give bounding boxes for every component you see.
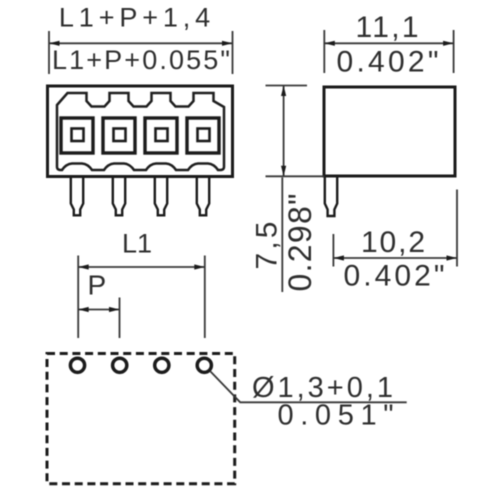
dimension 10,2: extension line right [456, 190, 458, 267]
front view: contact pin square 4 [198, 129, 210, 142]
dimension P: extension line right [119, 298, 121, 339]
front view: connector body outline [48, 86, 233, 177]
svg-text:L1: L1 [122, 228, 152, 258]
front view: contact pin square 3 [156, 129, 168, 142]
front view: contact pin square 1 [72, 129, 84, 142]
svg-text:L1+P+0.055": L1+P+0.055" [52, 45, 230, 75]
leader line from hole 4 to diameter note [211, 372, 407, 403]
bottom view: drill hole 4 [197, 358, 211, 372]
bottom view: drill hole 2 [113, 358, 127, 372]
dimension 11,1: dimension line [324, 42, 453, 44]
dimension 7,5: arrowhead bottom [281, 166, 286, 177]
svg-text:11,1: 11,1 [356, 11, 419, 44]
bottom view: drill hole 1 [70, 358, 84, 372]
dimension L1: arrowhead left [78, 264, 89, 269]
front view: contact window 3 [145, 118, 177, 153]
dimension L1: arrowhead right [194, 264, 205, 269]
dimension 10,2: extension line left [332, 234, 334, 267]
svg-text:0.298": 0.298" [282, 194, 318, 292]
dimension L1+P+1,4: extension line left [48, 31, 50, 74]
dimension 7,5: dimension line [283, 86, 285, 177]
dimension L1+P+1,4: arrowhead right [222, 41, 233, 46]
dimension 7,5: arrowhead top [281, 86, 286, 97]
svg-text:0.402": 0.402" [344, 259, 445, 292]
dimension 7,5: extension line bottom [266, 175, 325, 177]
svg-text:7,5: 7,5 [251, 222, 284, 270]
dimension L1+P+1,4: arrowhead left [49, 41, 60, 46]
front view: contact window 2 [103, 118, 135, 153]
svg-text:P: P [88, 269, 107, 300]
dimension 10,2: arrowhead right [447, 255, 458, 260]
dimension 11,1: extension line right [453, 30, 455, 73]
front view: inner moulding contour [57, 93, 224, 170]
dimension L1+P+1,4: dimension line [49, 42, 233, 44]
dimension L1: extension line left [77, 256, 79, 339]
dimension 10,2: arrowhead left [333, 255, 344, 260]
dimension 10,2: dimension line [333, 257, 457, 259]
dimension 11,1: arrowhead right [443, 41, 454, 46]
dimension L1: dimension line [78, 266, 205, 268]
front view: solder pin 4 [197, 178, 209, 216]
side view: body outline [324, 87, 455, 176]
front view: contact window 4 [187, 118, 219, 153]
front view: contact window 1 [61, 118, 93, 153]
svg-text:10,2: 10,2 [361, 226, 425, 259]
dimension P: arrowhead left [78, 307, 89, 312]
dimension 7,5: extension line top [266, 85, 308, 87]
dimension 11,1: extension line left [323, 30, 325, 73]
dimension L1: extension line right [204, 256, 206, 339]
front view: solder pin 1 [71, 178, 83, 216]
side view: solder pin [325, 178, 337, 217]
dimension P: dimension line [78, 309, 119, 311]
svg-text:0.051": 0.051" [278, 400, 394, 432]
svg-text:L1+P+1,4: L1+P+1,4 [59, 2, 210, 32]
bottom view: drill hole 3 [155, 358, 169, 372]
svg-text:0.402": 0.402" [337, 45, 439, 78]
front view: solder pin 3 [155, 178, 167, 216]
front view: solder pin 2 [113, 178, 125, 216]
bottom view: PCB outline (dashed) [47, 354, 235, 484]
dimension 7,5: fraction bar (vertical) [281, 178, 283, 293]
dimension L1+P+1,4: extension line right [232, 31, 234, 74]
dimension P: arrowhead right [109, 307, 120, 312]
dimension 11,1: arrowhead left [324, 41, 335, 46]
front view: contact pin square 2 [114, 129, 126, 142]
